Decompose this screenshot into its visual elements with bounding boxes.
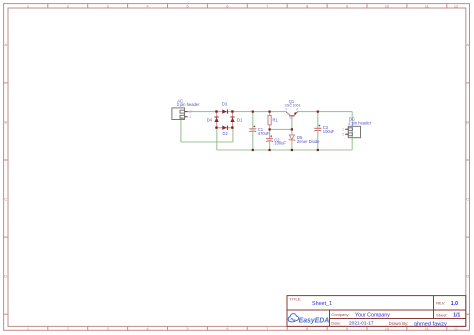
svg-text:12: 12 bbox=[454, 327, 458, 331]
transistor Q1 2SC1061 bbox=[287, 112, 298, 119]
svg-text:D3: D3 bbox=[222, 102, 228, 107]
svg-text:D2: D2 bbox=[223, 131, 229, 136]
AC pins bbox=[185, 112, 188, 117]
svg-text:Sheet:: Sheet: bbox=[436, 312, 448, 317]
resistor R1 bbox=[268, 115, 271, 125]
svg-text:9: 9 bbox=[346, 4, 348, 8]
svg-text:TITLE:: TITLE: bbox=[290, 297, 302, 302]
svg-text:1: 1 bbox=[27, 327, 29, 331]
wire: bridge BL corner drop to ground rail bbox=[216, 128, 218, 150]
svg-text:2021-01-17: 2021-01-17 bbox=[349, 321, 374, 327]
AC labels bbox=[177, 98, 200, 107]
diode D3 (bridge top) bbox=[222, 109, 228, 113]
svg-text:7: 7 bbox=[266, 327, 268, 331]
wire: C1 branch bbox=[252, 112, 254, 150]
wire: bridge BR corner drop bbox=[232, 128, 234, 142]
svg-text:7: 7 bbox=[266, 4, 268, 8]
svg-text:ahmed fawzy: ahmed fawzy bbox=[414, 322, 447, 328]
svg-text:2 pin header: 2 pin header bbox=[177, 102, 200, 107]
svg-text:Sheet_1: Sheet_1 bbox=[312, 301, 332, 307]
svg-text:A: A bbox=[5, 43, 8, 47]
svg-text:EasyEDA: EasyEDA bbox=[299, 317, 330, 324]
bridge rectifier frame bbox=[217, 112, 233, 128]
wire: Q1 base vertical bbox=[291, 118, 293, 129]
wire: base node horizontal bbox=[270, 128, 292, 130]
svg-text:2SC1061: 2SC1061 bbox=[285, 103, 301, 108]
junction dots bbox=[252, 111, 319, 152]
wire: AC return horizontal bbox=[181, 141, 233, 143]
svg-text:5: 5 bbox=[186, 327, 188, 331]
svg-text:1: 1 bbox=[189, 115, 191, 119]
svg-text:1: 1 bbox=[27, 4, 29, 8]
wire: C3 branch bbox=[317, 112, 319, 150]
D5 labels bbox=[297, 135, 320, 144]
svg-text:11: 11 bbox=[425, 4, 429, 8]
wire: zener branch bbox=[291, 129, 293, 150]
DC pins bbox=[345, 129, 348, 134]
svg-text:D1: D1 bbox=[237, 117, 243, 122]
svg-text:100uF: 100uF bbox=[323, 129, 335, 134]
svg-text:2: 2 bbox=[342, 133, 344, 137]
svg-text:4: 4 bbox=[147, 4, 149, 8]
svg-text:8: 8 bbox=[306, 327, 308, 331]
wire: AC return vertical from header pin1 bbox=[180, 117, 182, 142]
bridge corner dots bbox=[215, 110, 233, 129]
svg-text:C: C bbox=[466, 197, 469, 201]
svg-text:Drawn By:: Drawn By: bbox=[389, 321, 409, 326]
svg-text:470uF: 470uF bbox=[258, 131, 270, 136]
svg-text:Your Company: Your Company bbox=[355, 312, 390, 318]
EasyEDA logo bbox=[288, 314, 329, 325]
wire: R1 branch top bbox=[269, 112, 271, 116]
connector DC (2 pin header, output) bbox=[348, 126, 360, 137]
C3 labels bbox=[323, 125, 335, 134]
svg-text:11: 11 bbox=[425, 327, 429, 331]
svg-text:R1: R1 bbox=[273, 118, 279, 123]
svg-text:10: 10 bbox=[385, 4, 389, 8]
wire: top rail from Q1 emitter to right edge bbox=[297, 111, 352, 113]
C2 labels bbox=[274, 137, 286, 145]
C1 labels bbox=[258, 127, 270, 136]
svg-text:3: 3 bbox=[107, 327, 109, 331]
wire: top rail from bridge TR to Q1 collector bbox=[233, 111, 287, 113]
svg-text:12: 12 bbox=[454, 4, 458, 8]
svg-text:1.0: 1.0 bbox=[451, 301, 458, 307]
svg-text:2: 2 bbox=[67, 327, 69, 331]
svg-text:9: 9 bbox=[346, 327, 348, 331]
capacitor C2 (polarized 100uF) bbox=[266, 135, 273, 141]
svg-text:2: 2 bbox=[189, 110, 191, 114]
svg-text:B: B bbox=[5, 120, 8, 124]
svg-text:A: A bbox=[466, 43, 469, 47]
diode D1 (bridge right) bbox=[230, 117, 234, 123]
svg-text:100uF: 100uF bbox=[274, 141, 286, 146]
svg-text:5: 5 bbox=[186, 4, 188, 8]
svg-text:6: 6 bbox=[226, 4, 228, 8]
svg-text:REV:: REV: bbox=[436, 301, 445, 306]
svg-text:Zener Diode: Zener Diode bbox=[297, 139, 320, 144]
wire: top rail from AC header pin2 to bridge TL bbox=[188, 111, 217, 113]
wire: R1 bottom to C2 and ground bbox=[269, 125, 271, 150]
svg-text:D: D bbox=[4, 275, 7, 279]
svg-text:D4: D4 bbox=[207, 117, 213, 122]
capacitor C1 (polarized 470uF) bbox=[249, 126, 256, 132]
svg-text:Company:: Company: bbox=[331, 312, 349, 317]
diode D2 (bridge bottom) bbox=[222, 126, 228, 130]
Q1 labels bbox=[285, 99, 301, 120]
svg-text:D: D bbox=[466, 275, 469, 279]
diode D4 (bridge left) bbox=[214, 117, 218, 123]
svg-text:3: 3 bbox=[107, 4, 109, 8]
zener diode D5 bbox=[289, 135, 295, 141]
svg-text:1: 1 bbox=[342, 128, 344, 132]
svg-text:8: 8 bbox=[306, 4, 308, 8]
svg-text:C: C bbox=[4, 197, 7, 201]
svg-text:Date:: Date: bbox=[331, 320, 341, 325]
title block bbox=[287, 296, 466, 327]
svg-text:4: 4 bbox=[147, 327, 149, 331]
svg-text:1/1: 1/1 bbox=[453, 313, 460, 319]
wire: right side vertical bbox=[351, 112, 353, 150]
svg-text:B: B bbox=[466, 120, 469, 124]
DC labels bbox=[348, 117, 371, 126]
connector AC (2 pin header, input) bbox=[172, 108, 185, 120]
capacitor C3 (polarized 100uF) bbox=[314, 125, 321, 131]
svg-text:10: 10 bbox=[385, 327, 389, 331]
svg-text:2 pin header: 2 pin header bbox=[348, 121, 371, 126]
svg-text:6: 6 bbox=[226, 327, 228, 331]
svg-text:2: 2 bbox=[67, 4, 69, 8]
wire: bottom ground rail bbox=[217, 149, 352, 151]
